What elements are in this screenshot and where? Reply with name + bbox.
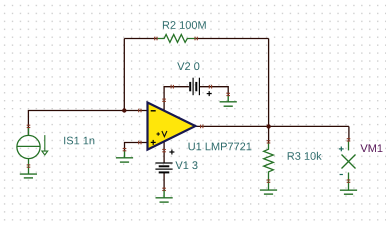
pin mark op-amp output xyxy=(201,125,203,129)
voltmeter VM1 plus sign xyxy=(339,147,344,152)
wire: R2 left horizontal segment xyxy=(124,38,158,40)
label V2 0 xyxy=(177,62,199,70)
battery V2 plus polarity sign xyxy=(207,91,212,96)
op-amp U1 plus input sign xyxy=(151,140,156,145)
wire: op-amp non-inverting input stub left and down to ground xyxy=(125,143,149,151)
junction node A (inverting input / feedback) xyxy=(122,108,126,112)
label V1 3 xyxy=(175,161,197,169)
wire: V2 branch from op-amp V+ pin up and right to battery xyxy=(164,87,189,112)
op-amp U1 +V supply label inside triangle xyxy=(157,131,167,137)
pin mark V2 left xyxy=(171,85,173,89)
voltmeter VM1 cross symbol xyxy=(342,141,356,190)
pin mark op-amp non-inverting input xyxy=(139,141,141,145)
ground below battery V1 xyxy=(156,191,173,203)
junction node B (output node) xyxy=(266,124,270,128)
pin mark IS1 bottom xyxy=(27,165,31,167)
ground below VM1 xyxy=(340,190,357,194)
label VM1 xyxy=(360,144,382,152)
pin mark IS1 top xyxy=(27,125,31,127)
pin mark V1 bottom xyxy=(162,188,166,190)
wire: main input net horizontal from IS1 to op-amp inverting input xyxy=(28,111,148,136)
pin mark VM1 top xyxy=(347,139,351,141)
pin mark op-amp V+ supply pin xyxy=(162,99,166,101)
label U1 LMP7721 xyxy=(189,143,252,151)
ground below IS1 xyxy=(20,174,37,178)
pin mark R2 left xyxy=(155,37,157,41)
resistor R3 10k (vertical) xyxy=(264,144,274,191)
op-amp U1 minus input sign xyxy=(151,110,156,112)
wire: battery V1 bottom down to ground xyxy=(163,172,165,190)
pin mark op-amp inverting input xyxy=(139,109,141,113)
ground at V2 right xyxy=(220,96,237,106)
pin mark R3 top xyxy=(267,141,271,143)
ground below R3 xyxy=(260,190,277,194)
pin mark ground stub at non-inverting input xyxy=(123,149,127,151)
pin mark R3 bottom xyxy=(267,180,271,182)
pin mark V2 ground stub xyxy=(226,93,230,95)
resistor R2 100M (horizontal) xyxy=(157,35,196,43)
current source IS1 pin stubs xyxy=(28,128,30,174)
wire: VM1 drop from corner down to meter pin xyxy=(348,126,350,141)
pin mark R2 right xyxy=(195,37,197,41)
ground at op-amp non-inverting input xyxy=(116,151,133,162)
wire: op-amp output horizontal to node B and on to VM1 corner xyxy=(193,125,349,127)
label R3 10k xyxy=(288,152,322,160)
current source IS1 diameter line xyxy=(17,145,40,147)
wire: node B down to R3 top pin xyxy=(268,126,270,142)
battery V1 (vertical) plates xyxy=(155,163,172,172)
pin mark op-amp V- supply pin xyxy=(162,150,166,152)
wire: V2 right side to ground corner xyxy=(199,87,228,96)
battery V2 (horizontal) plates xyxy=(190,78,199,96)
wire: right riser from R2 down to output node B xyxy=(268,39,270,127)
battery V1 plus polarity sign xyxy=(169,150,174,155)
wire: feedback branch riser from junction A up to R2 level xyxy=(123,39,125,111)
op-amp U1 triangle xyxy=(148,103,196,150)
label R2 100M xyxy=(163,21,206,29)
voltmeter VM1 minus sign xyxy=(340,174,343,176)
current source IS1 direction arrow xyxy=(42,135,48,155)
wire: op-amp V- pin down to battery V1 xyxy=(163,140,165,163)
label IS1 1n xyxy=(64,137,94,145)
wire: R2 right horizontal segment to right riser corner xyxy=(195,38,269,40)
pin mark VM1 bottom xyxy=(347,180,351,182)
pin mark V2 right xyxy=(209,85,211,89)
current source IS1 circle xyxy=(17,135,40,158)
